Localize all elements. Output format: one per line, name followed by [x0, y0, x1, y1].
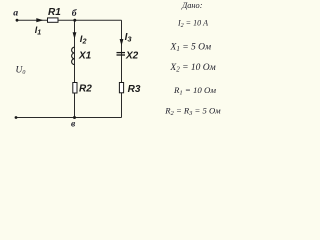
resistor R3	[119, 83, 123, 93]
node б junction dot	[73, 19, 76, 22]
node a terminal dot	[16, 19, 19, 22]
svg-text:X2 = 10 Ом: X2 = 10 Ом	[169, 63, 215, 74]
svg-text:в: в	[71, 119, 76, 130]
inductor X1	[72, 47, 75, 64]
svg-text:X1: X1	[78, 51, 92, 62]
svg-text:X1 = 5 Ом: X1 = 5 Ом	[170, 43, 212, 54]
current arrow I2	[73, 32, 77, 39]
node в junction dot	[73, 116, 76, 119]
current arrow I3	[120, 39, 124, 46]
capacitor X2 plate 1	[117, 52, 126, 54]
wire bottom	[16, 117, 122, 119]
svg-text:R2 = R3 = 5 Ом: R2 = R3 = 5 Ом	[164, 105, 221, 116]
wire branch 1 vertical (node б to node в)	[74, 20, 76, 117]
svg-text:a: a	[13, 7, 18, 18]
wire top: node a to corner	[17, 19, 122, 21]
svg-text:I2: I2	[80, 34, 87, 46]
svg-text:R2: R2	[79, 84, 92, 95]
current arrow I1	[36, 18, 43, 22]
wire branch 2 vertical	[121, 20, 123, 117]
svg-text:R1: R1	[48, 7, 61, 18]
svg-text:I3: I3	[125, 32, 133, 44]
svg-text:Дано:: Дано:	[181, 1, 203, 10]
svg-text:X2: X2	[125, 51, 139, 62]
resistor R2	[73, 83, 77, 94]
terminal bottom-left dot	[15, 116, 18, 119]
capacitor X2 plate 2	[117, 54, 126, 56]
resistor R1	[48, 18, 59, 22]
svg-text:R3: R3	[128, 84, 141, 95]
